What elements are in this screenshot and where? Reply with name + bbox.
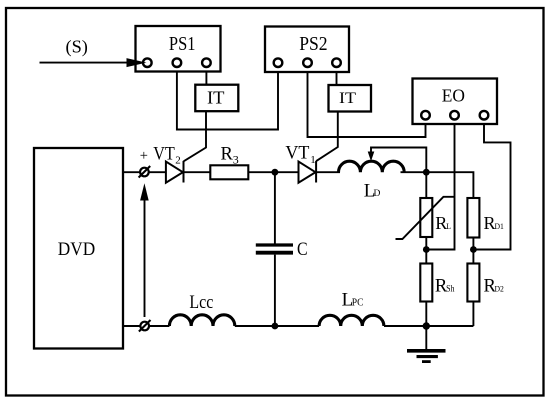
main top wire — [123, 171, 166, 173]
wire IT1 to VT2 gate — [184, 111, 206, 161]
wire RSh bottom — [425, 302, 427, 327]
inductor LD — [339, 161, 405, 172]
svg-text:(S): (S) — [66, 37, 89, 57]
node junction main/RL — [423, 169, 430, 176]
resistor RSh — [420, 264, 432, 302]
box DVD — [34, 148, 123, 349]
svg-text:DVD: DVD — [58, 239, 95, 260]
node junction C/bottom — [272, 323, 279, 330]
wire EO.2 to RL-RSh junction — [426, 120, 454, 250]
inductor Lcc — [169, 315, 234, 326]
terminal circles EO — [421, 111, 430, 120]
svg-text:2: 2 — [175, 154, 181, 166]
node junction RD1/RD2 — [470, 246, 477, 253]
inductor LPC — [319, 315, 384, 326]
terminal circles PS2 — [274, 58, 283, 67]
thyristor VT1 — [299, 161, 317, 183]
terminal circle (slashed) top DVD — [139, 166, 151, 178]
svg-text:Lcc: Lcc — [189, 293, 213, 313]
wire RD2 bottom — [472, 302, 474, 327]
wire R3 to VT1 — [248, 171, 298, 173]
wire PS2.3 to IT2 — [336, 67, 338, 86]
capacitor C branch wire bottom — [274, 255, 276, 326]
svg-text:PC: PC — [352, 298, 364, 309]
svg-text:D2: D2 — [495, 284, 504, 294]
svg-text:VT: VT — [285, 143, 309, 163]
svg-text:PS1: PS1 — [169, 34, 196, 55]
svg-text:R: R — [221, 145, 234, 165]
box PS1 — [136, 26, 221, 72]
svg-text:C: C — [297, 240, 308, 260]
svg-text:D1: D1 — [495, 221, 504, 231]
node junction R3/C — [272, 169, 279, 176]
svg-text:VT: VT — [153, 144, 175, 164]
ground — [407, 326, 446, 362]
box IT2 — [329, 85, 372, 112]
svg-text:IT: IT — [207, 88, 225, 108]
svg-text:L: L — [446, 222, 451, 231]
svg-text:+: + — [140, 148, 148, 164]
wire PS2.2 to EO.1 — [308, 67, 426, 138]
resistor RL — [420, 198, 432, 237]
node S input arrow — [40, 62, 137, 64]
wire VT1 to LD — [316, 171, 340, 173]
wire LD to RD1 corner — [401, 172, 474, 198]
svg-text:1: 1 — [310, 154, 316, 166]
feedback arrow up — [140, 183, 149, 317]
box IT1 — [195, 85, 238, 112]
node junction RL/RSh — [423, 246, 430, 253]
wire PS1.2 to PS2.1 — [177, 67, 278, 130]
wire RD1 to RD2 — [472, 238, 474, 264]
thyristor VT2 — [166, 161, 184, 183]
svg-text:EO: EO — [442, 86, 465, 106]
resistor RD1 — [467, 198, 479, 238]
wire RL top — [425, 172, 427, 198]
svg-text:D: D — [374, 189, 381, 199]
variable inductor arrow over LD — [368, 148, 427, 173]
resistor R3 — [210, 165, 248, 179]
capacitor C — [256, 245, 293, 253]
wire VT2 to R3 — [183, 171, 210, 173]
capacitor C branch wire top — [274, 172, 276, 243]
bottom wire Lcc to LPC — [235, 325, 319, 327]
wire PS1.3 to IT1 — [205, 67, 207, 85]
bottom wire DVD to Lcc — [123, 325, 169, 327]
wire RL to RSh — [425, 237, 427, 264]
svg-text:3: 3 — [233, 153, 239, 167]
varistor diagonal RL — [396, 197, 455, 239]
svg-text:IT: IT — [339, 90, 356, 107]
box EO — [413, 79, 498, 125]
box PS2 — [265, 27, 349, 73]
terminal circles PS1 — [143, 58, 152, 67]
node junction ground/bottom — [423, 322, 430, 329]
wire IT2 to VT1 gate — [316, 112, 338, 162]
terminal circle (slashed) bottom DVD — [139, 320, 151, 332]
svg-text:Sh: Sh — [446, 284, 455, 294]
svg-text:PS2: PS2 — [299, 34, 327, 55]
resistor RD2 — [467, 264, 479, 302]
wire EO.3 to RD1-RD2 junction — [473, 120, 510, 250]
bottom wire LPC to RD2 — [384, 325, 473, 327]
